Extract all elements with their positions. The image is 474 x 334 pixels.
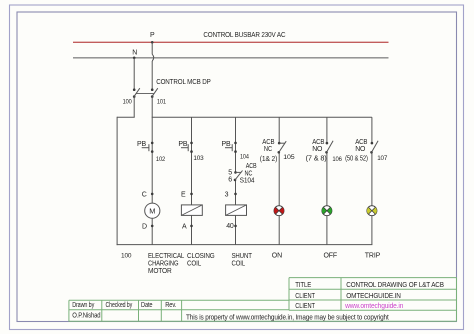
svg-text:CHARGING: CHARGING — [148, 260, 178, 267]
svg-text:PB: PB — [178, 141, 188, 148]
svg-text:ACB: ACB — [262, 139, 275, 146]
svg-text:O.P.Nishad: O.P.Nishad — [72, 312, 101, 319]
svg-text:S104: S104 — [240, 177, 255, 184]
svg-text:102: 102 — [156, 156, 166, 163]
svg-text:NO: NO — [312, 146, 323, 153]
svg-text:COIL: COIL — [187, 260, 201, 267]
svg-text:ELECTRICAL: ELECTRICAL — [148, 253, 184, 260]
svg-text:100: 100 — [121, 252, 132, 259]
svg-text:40: 40 — [226, 223, 234, 230]
svg-text:D: D — [142, 223, 147, 230]
svg-text:106: 106 — [332, 156, 342, 163]
svg-text:3: 3 — [225, 192, 229, 199]
svg-text:PB: PB — [137, 141, 147, 148]
svg-text:OMTECHGUIDE.IN: OMTECHGUIDE.IN — [346, 293, 401, 300]
svg-text:NC: NC — [264, 146, 272, 153]
svg-text:ACB: ACB — [355, 139, 368, 146]
svg-text:(50 & 52): (50 & 52) — [345, 156, 368, 163]
svg-text:(7 & 8): (7 & 8) — [306, 156, 327, 163]
svg-text:This is property of www.omtech: This is property of www.omtechguide.in, … — [186, 315, 389, 322]
svg-text:107: 107 — [377, 155, 388, 162]
svg-text:CLOSING: CLOSING — [187, 253, 215, 260]
svg-text:A: A — [182, 223, 187, 230]
svg-text:SHUNT: SHUNT — [232, 253, 253, 260]
svg-text:Date: Date — [141, 302, 153, 309]
svg-text:NO: NO — [355, 146, 366, 153]
svg-text:PB: PB — [222, 141, 232, 148]
svg-text:CLIENT: CLIENT — [295, 293, 315, 300]
svg-text:ACB: ACB — [246, 163, 257, 170]
svg-text:103: 103 — [193, 155, 204, 162]
svg-text:ON: ON — [272, 252, 282, 259]
svg-text:E: E — [181, 192, 186, 199]
svg-text:www.omtechguide.in: www.omtechguide.in — [344, 303, 403, 310]
svg-text:TRIP: TRIP — [365, 252, 381, 259]
svg-text:P: P — [150, 32, 155, 39]
svg-text:(1& 2): (1& 2) — [260, 156, 277, 163]
svg-text:COIL: COIL — [232, 260, 246, 267]
svg-text:M: M — [149, 206, 155, 215]
svg-text:CLIENT: CLIENT — [295, 303, 315, 310]
svg-text:C: C — [142, 192, 147, 199]
svg-text:104: 104 — [240, 153, 249, 160]
svg-text:TITLE: TITLE — [295, 282, 311, 289]
svg-text:CONTROL DRAWING OF L&T ACB: CONTROL DRAWING OF L&T ACB — [346, 282, 444, 289]
svg-text:Checked by: Checked by — [106, 302, 133, 309]
svg-text:MOTOR: MOTOR — [148, 268, 172, 275]
svg-text:100: 100 — [123, 99, 132, 106]
svg-text:CONTROL BUSBAR 230V AC: CONTROL BUSBAR 230V AC — [203, 32, 285, 39]
svg-text:OFF: OFF — [324, 252, 338, 259]
svg-text:N: N — [132, 49, 137, 56]
svg-text:ACB: ACB — [312, 139, 325, 146]
svg-text:Drawn by: Drawn by — [72, 302, 94, 309]
svg-text:5: 5 — [228, 170, 232, 177]
svg-text:101: 101 — [157, 99, 166, 106]
svg-text:Rev.: Rev. — [165, 302, 176, 309]
svg-text:CONTROL MCB DP: CONTROL MCB DP — [156, 79, 211, 86]
svg-text:105: 105 — [283, 154, 295, 161]
svg-text:6: 6 — [228, 177, 232, 184]
